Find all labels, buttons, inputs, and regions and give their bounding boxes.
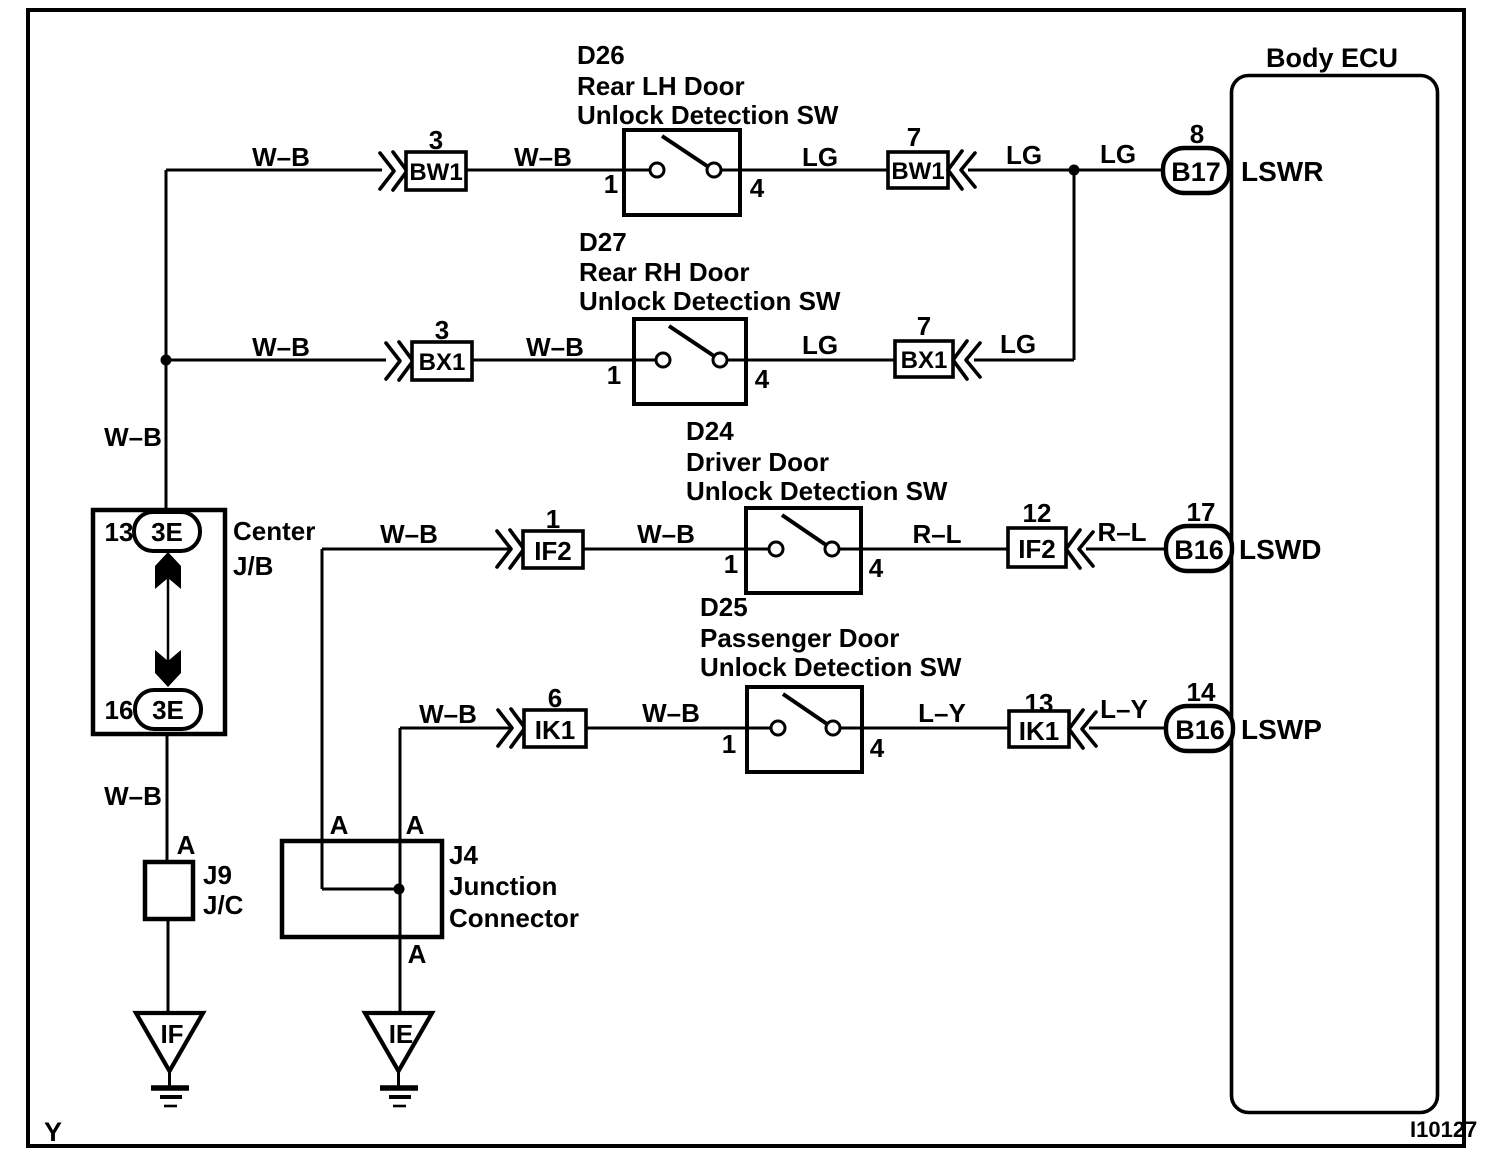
svg-text:7: 7	[917, 311, 931, 341]
connector IK1 pin13 box	[1009, 711, 1069, 747]
ground IE bar 2	[389, 1095, 411, 1099]
svg-text:Passenger Door: Passenger Door	[700, 623, 899, 653]
Body ECU box	[1232, 76, 1438, 1113]
svg-text:Y: Y	[44, 1117, 62, 1147]
wire LG row1 D26 pin4 to BW1	[721, 169, 888, 172]
ground IE bar 1	[380, 1085, 418, 1091]
svg-text:W–B: W–B	[419, 699, 477, 729]
svg-text:W–B: W–B	[380, 519, 438, 549]
connector BW1 pin7 box	[888, 152, 948, 188]
connector male chevrons IF2 pin1	[497, 530, 524, 568]
wire vertical IK1 branch through J4 to IE ground	[399, 728, 402, 1014]
wire W-B row2 junction to BX1	[166, 359, 386, 362]
svg-text:W–B: W–B	[526, 332, 584, 362]
wire vertical Center J/B to J9	[166, 732, 169, 864]
wire W-B row4 IK1 to D25 pin1	[586, 727, 771, 730]
switch D25 pin4 contact	[826, 721, 840, 735]
wire J4 internal link	[322, 888, 400, 891]
connector female chevrons BX1 pin7	[953, 341, 980, 379]
wire L-Y row4 chevron to B16	[1089, 727, 1167, 730]
svg-text:L–Y: L–Y	[918, 698, 966, 728]
ground IE bar 3	[393, 1105, 406, 1108]
junction node inside J4	[394, 884, 405, 895]
svg-text:I10127: I10127	[1410, 1117, 1477, 1142]
svg-text:J/C: J/C	[203, 890, 244, 920]
svg-text:J4: J4	[449, 840, 478, 870]
switch D24 blade	[782, 515, 826, 545]
svg-text:B16: B16	[1174, 535, 1224, 565]
svg-text:D25: D25	[700, 592, 748, 622]
connector female chevrons IK1 pin13	[1069, 710, 1096, 748]
label D24 title	[686, 416, 948, 506]
svg-text:4: 4	[869, 553, 884, 583]
junction node LG row1	[1069, 165, 1080, 176]
svg-text:Body ECU: Body ECU	[1266, 43, 1398, 73]
svg-text:IK1: IK1	[1019, 716, 1059, 746]
svg-text:L–Y: L–Y	[1100, 694, 1148, 724]
switch D25 box	[747, 687, 862, 772]
svg-text:BW1: BW1	[409, 159, 462, 186]
connector B16 oval row4	[1166, 706, 1233, 751]
switch D25 pin1 contact	[771, 721, 785, 735]
wire R-L row3 D24 pin4 to IF2	[839, 548, 1008, 551]
svg-text:4: 4	[750, 173, 765, 203]
svg-text:Junction: Junction	[449, 871, 557, 901]
wire W-B row1 left	[166, 169, 382, 172]
svg-text:LG: LG	[1000, 329, 1036, 359]
svg-text:R–L: R–L	[1097, 517, 1146, 547]
wire vertical left branch top	[165, 170, 168, 361]
junction connector J4 box	[282, 841, 442, 937]
svg-text:Connector: Connector	[449, 903, 579, 933]
svg-text:W–B: W–B	[252, 142, 310, 172]
svg-text:1: 1	[607, 360, 621, 390]
svg-text:J/B: J/B	[233, 551, 273, 581]
wire W-B row4 corner to IK1	[400, 727, 512, 730]
svg-text:W–B: W–B	[642, 698, 700, 728]
svg-text:R–L: R–L	[912, 519, 961, 549]
switch D26 blade	[662, 136, 707, 166]
svg-text:W–B: W–B	[104, 781, 162, 811]
label J4 Junction Connector	[449, 840, 579, 933]
svg-text:LG: LG	[1006, 140, 1042, 170]
svg-text:A: A	[408, 939, 427, 969]
switch D27 pin1 contact	[656, 353, 670, 367]
connector BW1 pin3 box	[406, 152, 466, 190]
wire W-B row3 corner to IF2	[322, 548, 511, 551]
bus arrow down	[155, 650, 181, 687]
connector male chevrons IK1 pin6	[498, 709, 525, 747]
connector female chevrons BW1 pin7	[948, 151, 975, 189]
wire LG row2 chevron to corner	[974, 359, 1074, 362]
svg-text:4: 4	[870, 733, 885, 763]
svg-text:LG: LG	[802, 330, 838, 360]
wire vertical left branch to Center J/B	[165, 361, 168, 512]
connector BX1 pin7 box	[895, 341, 953, 377]
wire R-L row3 chevron to B16	[1086, 548, 1167, 551]
switch D27 blade	[669, 326, 714, 356]
svg-text:A: A	[177, 830, 196, 860]
svg-text:W–B: W–B	[252, 332, 310, 362]
svg-text:W–B: W–B	[637, 519, 695, 549]
svg-text:LSWP: LSWP	[1241, 714, 1322, 745]
connector 3E oval top	[134, 512, 200, 551]
connector IK1 pin6 box	[524, 710, 586, 747]
svg-text:3E: 3E	[151, 517, 183, 547]
ground IF triangle	[136, 1013, 203, 1106]
switch D27 pin4 contact	[713, 353, 727, 367]
connector B16 oval row3	[1166, 526, 1232, 571]
svg-text:17: 17	[1187, 497, 1216, 527]
ground IF bar 3	[164, 1105, 177, 1108]
switch D25 blade	[783, 694, 827, 724]
Center J/B box	[93, 510, 225, 734]
svg-text:W–B: W–B	[104, 422, 162, 452]
connector B17 oval	[1163, 148, 1229, 193]
svg-text:D26: D26	[577, 40, 625, 70]
switch D24 box	[746, 508, 861, 593]
svg-text:Driver Door: Driver Door	[686, 447, 829, 477]
bus arrow up	[155, 552, 181, 589]
svg-text:Rear LH Door: Rear LH Door	[577, 71, 745, 101]
bus arrow link line	[167, 578, 170, 662]
svg-text:3E: 3E	[152, 695, 184, 725]
wire W-B row3 IF2 to D24 pin1	[583, 548, 769, 551]
wire LG row1 chevron to B17	[968, 169, 1164, 172]
label D25 title	[700, 592, 962, 682]
junction node row2 left	[161, 355, 172, 366]
ground IE stem	[397, 1071, 400, 1086]
wire vertical J9 to IF ground	[167, 918, 170, 1014]
connector male chevrons BW1 pin3	[380, 152, 407, 190]
svg-text:LG: LG	[1100, 139, 1136, 169]
svg-text:Rear RH Door: Rear RH Door	[579, 257, 749, 287]
connector IF2 pin1 box	[523, 531, 583, 568]
connector male chevrons BX1 pin3	[386, 342, 413, 380]
svg-text:A: A	[406, 810, 425, 840]
svg-text:B16: B16	[1175, 715, 1225, 745]
switch D26 pin1 contact	[650, 163, 664, 177]
label D27 title	[579, 227, 841, 316]
switch D24 pin1 contact	[769, 542, 783, 556]
svg-text:14: 14	[1187, 677, 1216, 707]
svg-text:Center: Center	[233, 516, 315, 546]
svg-text:Unlock Detection SW: Unlock Detection SW	[700, 652, 962, 682]
switch D27 box	[634, 319, 746, 404]
svg-text:1: 1	[722, 729, 736, 759]
svg-text:4: 4	[755, 364, 770, 394]
connector 3E oval bottom	[135, 690, 201, 729]
svg-text:A: A	[330, 810, 349, 840]
wire LG row2 D27 pin4 to BX1	[727, 359, 895, 362]
svg-text:LG: LG	[802, 142, 838, 172]
svg-text:BX1: BX1	[419, 349, 466, 376]
svg-text:1: 1	[604, 169, 618, 199]
svg-text:D27: D27	[579, 227, 627, 257]
svg-text:BX1: BX1	[901, 347, 948, 374]
ground IE triangle	[365, 1013, 432, 1106]
switch D26 box	[624, 130, 740, 215]
svg-text:BW1: BW1	[891, 158, 944, 185]
svg-text:IF: IF	[160, 1019, 183, 1049]
svg-text:J9: J9	[203, 860, 232, 890]
svg-text:IE: IE	[389, 1019, 414, 1049]
svg-text:W–B: W–B	[514, 142, 572, 172]
svg-text:1: 1	[724, 549, 738, 579]
svg-text:Unlock Detection SW: Unlock Detection SW	[577, 100, 839, 130]
svg-text:IF2: IF2	[534, 536, 572, 566]
connector female chevrons IF2 pin12	[1066, 530, 1093, 568]
svg-text:12: 12	[1023, 498, 1052, 528]
svg-text:IK1: IK1	[535, 715, 575, 745]
svg-text:LSWR: LSWR	[1241, 156, 1323, 187]
switch D26 pin4 contact	[707, 163, 721, 177]
ground IF stem	[168, 1071, 171, 1086]
ground IF bar 2	[160, 1095, 182, 1099]
label D26 title	[577, 40, 839, 130]
wire vertical LG branch	[1073, 170, 1076, 360]
svg-text:IF2: IF2	[1018, 534, 1056, 564]
svg-text:8: 8	[1190, 119, 1204, 149]
junction connector J9 box	[145, 862, 193, 919]
wire W-B row2 BX1 to D27 pin1	[472, 359, 655, 362]
svg-text:16: 16	[105, 695, 134, 725]
connector BX1 pin3 box	[412, 342, 472, 380]
wire W-B row1 BW1 to D26 pin1	[466, 169, 650, 172]
label Center J/B	[233, 516, 315, 581]
svg-text:7: 7	[907, 122, 921, 152]
switch D24 pin4 contact	[825, 542, 839, 556]
label J9 J/C	[203, 860, 244, 920]
svg-text:Unlock Detection SW: Unlock Detection SW	[579, 286, 841, 316]
ground IF bar 1	[151, 1085, 189, 1091]
connector IF2 pin12 box	[1008, 528, 1066, 567]
wire L-Y row4 D25 pin4 to IK1	[840, 727, 1009, 730]
wire vertical IF2 branch to J4	[321, 549, 324, 889]
svg-text:D24: D24	[686, 416, 734, 446]
svg-text:LSWD: LSWD	[1239, 534, 1321, 565]
svg-text:Unlock Detection SW: Unlock Detection SW	[686, 476, 948, 506]
svg-text:13: 13	[105, 517, 134, 547]
svg-text:B17: B17	[1171, 157, 1221, 187]
